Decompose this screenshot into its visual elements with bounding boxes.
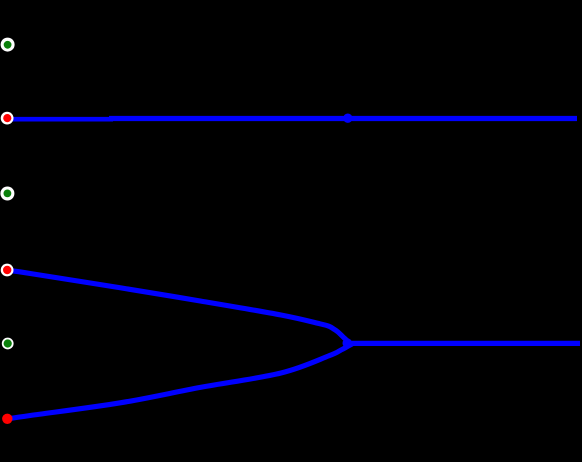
wire: lower branch curve	[7, 344, 352, 419]
marker 6: plain red dot (no ring)	[2, 414, 12, 424]
wire: top trajectory line (left thinner part)	[7, 117, 113, 122]
marker 3: green equilibrium dot with white ring	[0, 187, 14, 201]
wire: bottom horizontal line after merge	[348, 341, 580, 346]
marker 1: green equilibrium dot with white ring	[1, 38, 15, 52]
marker 2: red equilibrium dot with white ring	[1, 112, 14, 125]
wire: upper branch curve	[7, 270, 351, 343]
wire: top trajectory line (right part)	[109, 116, 577, 121]
marker 4: red equilibrium dot with white ring	[1, 264, 14, 277]
node: blue point on top line	[343, 114, 352, 123]
node: junction blob where branches merge	[343, 338, 353, 348]
marker 5: green equilibrium dot with white ring	[2, 338, 14, 350]
